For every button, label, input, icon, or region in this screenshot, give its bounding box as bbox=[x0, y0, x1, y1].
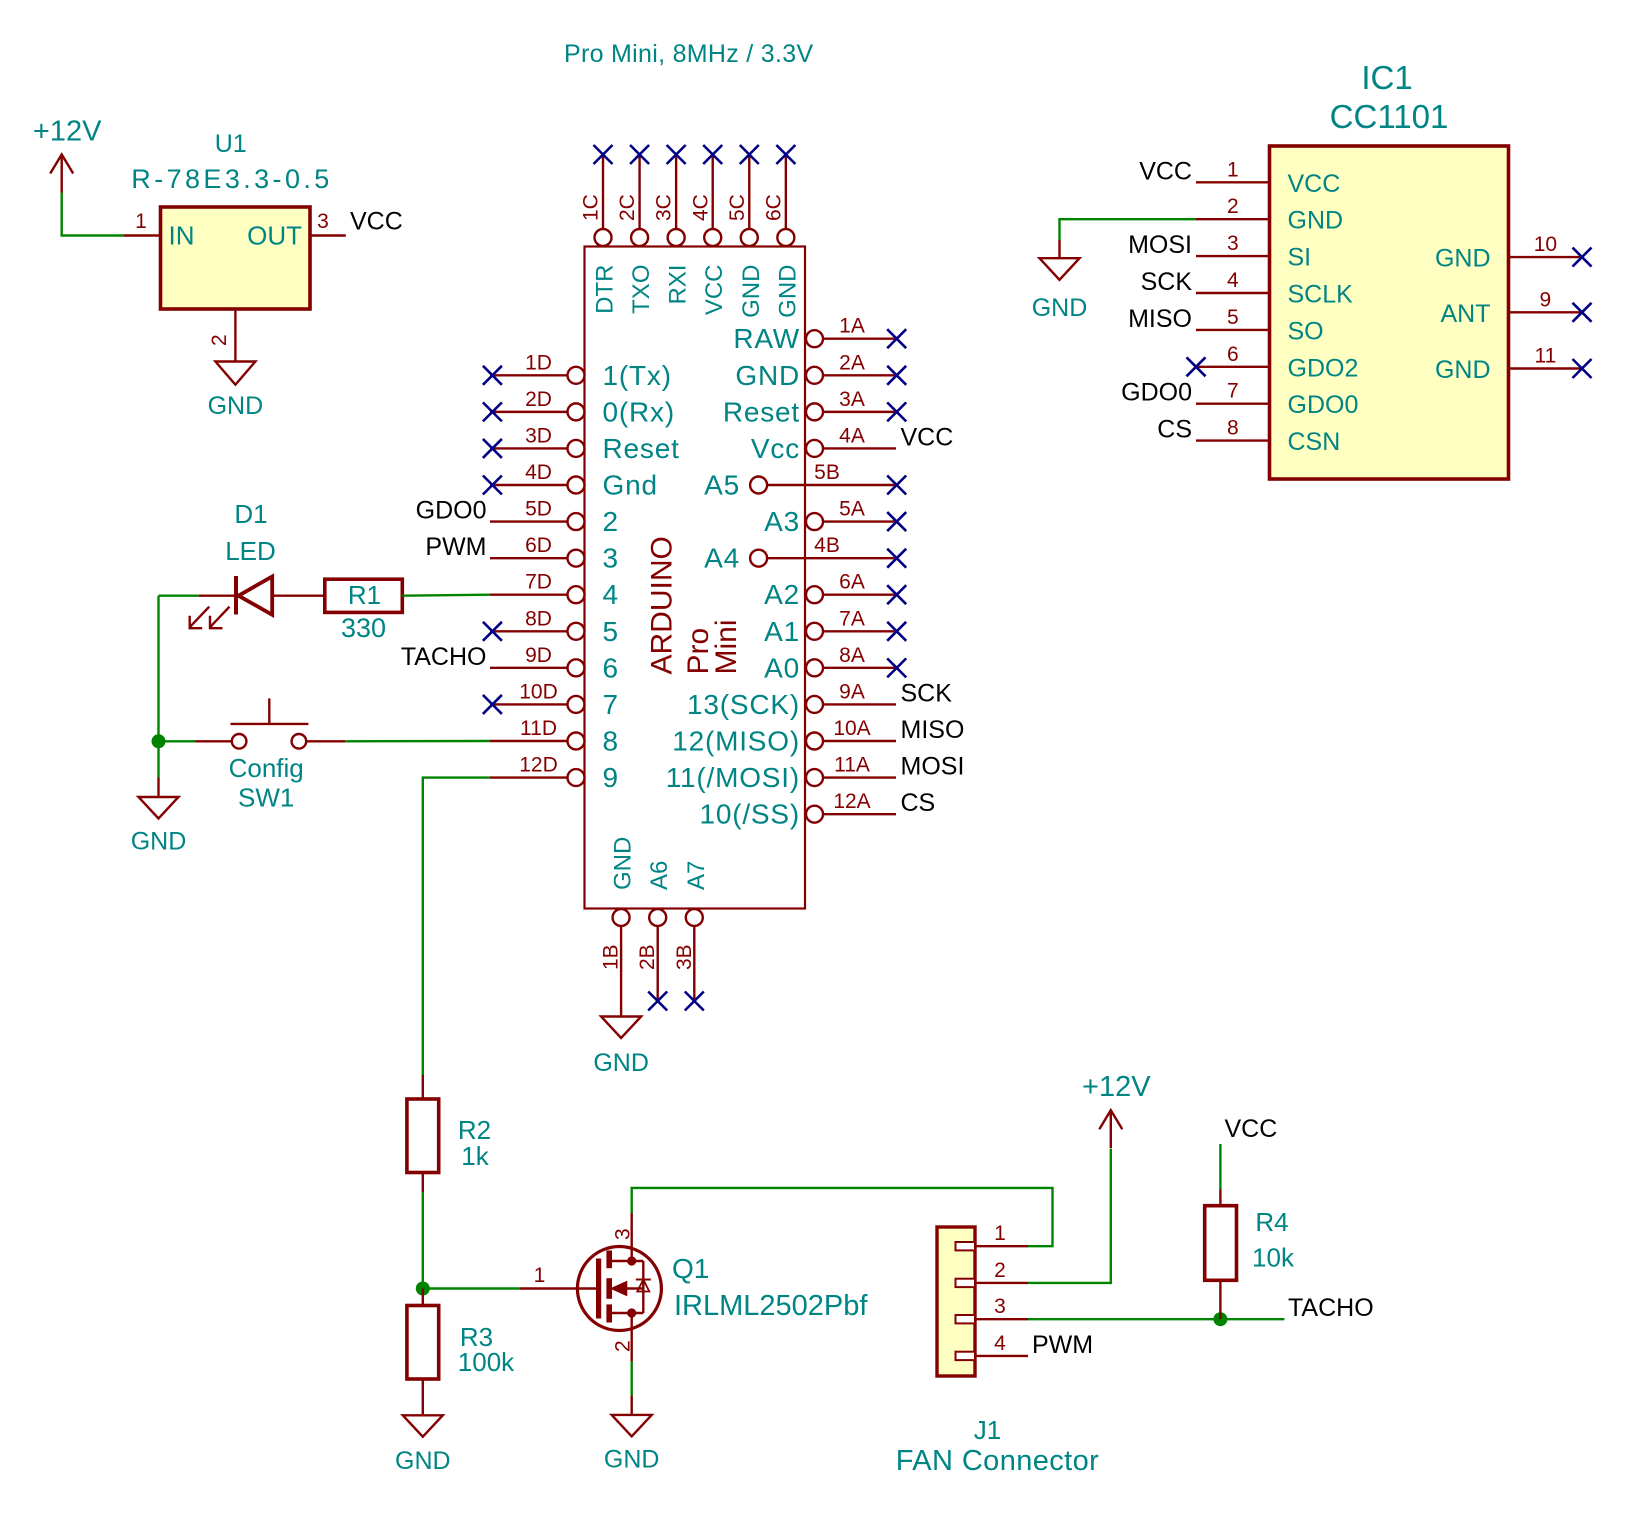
svg-text:1C: 1C bbox=[580, 194, 603, 221]
arduino pin 1B GND bbox=[613, 909, 630, 926]
ground symbol below R3 bbox=[403, 1415, 443, 1436]
no-connect IC1 pin 6 GDO2 bbox=[1187, 357, 1206, 376]
no-connect IC1 pin 9 bbox=[1573, 303, 1592, 322]
svg-text:SCK: SCK bbox=[1141, 268, 1193, 296]
svg-text:PWM: PWM bbox=[1032, 1331, 1093, 1359]
svg-text:1B: 1B bbox=[600, 944, 623, 970]
svg-text:2D: 2D bbox=[525, 388, 552, 411]
arduino pin 10A 12(MISO) bbox=[823, 740, 896, 742]
svg-text:MOSI: MOSI bbox=[1128, 231, 1192, 259]
wire arduino pin 12D to R2 bbox=[423, 778, 490, 1075]
svg-text:PWM: PWM bbox=[425, 533, 486, 561]
svg-text:A6: A6 bbox=[646, 861, 673, 890]
svg-text:9D: 9D bbox=[525, 644, 552, 667]
arduino pin 6D 3 bbox=[490, 557, 568, 559]
svg-text:3D: 3D bbox=[525, 424, 552, 447]
svg-text:2: 2 bbox=[612, 1340, 635, 1352]
svg-text:6: 6 bbox=[603, 652, 619, 683]
svg-text:13(SCK): 13(SCK) bbox=[687, 689, 800, 720]
no-connect pin 5C bbox=[740, 145, 759, 164]
svg-text:A7: A7 bbox=[683, 861, 710, 890]
wire Q1 source to ground bbox=[631, 1362, 633, 1396]
svg-text:CSN: CSN bbox=[1288, 428, 1341, 456]
svg-text:2: 2 bbox=[1227, 195, 1239, 218]
svg-text:GND: GND bbox=[610, 837, 637, 890]
J1 pin 1 bbox=[956, 1242, 976, 1250]
no-connect pin 8D bbox=[483, 622, 502, 641]
arduino pin 6C GND bbox=[785, 156, 787, 229]
arduino pin 11A 11(/MOSI) bbox=[823, 776, 896, 778]
wire VCC to R4 bbox=[1219, 1144, 1221, 1190]
svg-text:A2: A2 bbox=[764, 579, 800, 610]
svg-text:J1: J1 bbox=[974, 1415, 1001, 1445]
arduino pin 2D 0(Rx) bbox=[490, 411, 568, 413]
IC1 pin 1 VCC bbox=[1196, 181, 1270, 183]
svg-text:OUT: OUT bbox=[247, 221, 302, 251]
svg-text:SW1: SW1 bbox=[238, 783, 294, 813]
U1 pin 3 OUT bbox=[310, 234, 346, 236]
svg-text:10: 10 bbox=[1534, 233, 1557, 256]
D1 light arrow 2 bbox=[210, 607, 230, 628]
svg-text:GND: GND bbox=[395, 1447, 451, 1475]
svg-text:5C: 5C bbox=[726, 194, 749, 221]
svg-text:GND: GND bbox=[1435, 356, 1491, 384]
svg-text:3: 3 bbox=[1227, 232, 1239, 255]
svg-text:A3: A3 bbox=[764, 506, 800, 537]
svg-text:1(Tx): 1(Tx) bbox=[603, 360, 672, 391]
svg-text:GDO0: GDO0 bbox=[416, 497, 487, 525]
IC1 pin 8 CSN bbox=[1196, 439, 1270, 441]
wire junction to SW1 bbox=[159, 740, 196, 742]
arduino pin 8D 5 bbox=[490, 630, 568, 632]
svg-text:1D: 1D bbox=[525, 351, 552, 374]
arduino pin 11D 8 bbox=[490, 740, 568, 742]
svg-text:GND: GND bbox=[735, 360, 800, 391]
svg-text:R-78E3.3-0.5: R-78E3.3-0.5 bbox=[131, 164, 332, 194]
svg-text:A1: A1 bbox=[764, 616, 800, 647]
svg-text:6: 6 bbox=[1227, 343, 1239, 366]
svg-text:11A: 11A bbox=[834, 754, 870, 777]
J1 pin 3 bbox=[956, 1315, 976, 1323]
wire junction to Q1 gate bbox=[423, 1287, 520, 1289]
svg-text:8: 8 bbox=[1227, 417, 1239, 440]
svg-text:3: 3 bbox=[603, 543, 619, 574]
svg-text:8D: 8D bbox=[525, 607, 552, 630]
svg-text:GDO0: GDO0 bbox=[1121, 379, 1192, 407]
svg-text:3C: 3C bbox=[653, 194, 676, 221]
svg-text:10k: 10k bbox=[1252, 1243, 1295, 1273]
arduino pin 5C GND bbox=[748, 156, 750, 229]
IC1 pin 6 GDO2 bbox=[1196, 366, 1270, 368]
svg-text:1: 1 bbox=[1227, 158, 1239, 181]
arduino pin 1A RAW bbox=[823, 338, 896, 340]
svg-text:VCC: VCC bbox=[1139, 157, 1192, 185]
svg-text:6D: 6D bbox=[525, 534, 552, 557]
svg-text:VCC: VCC bbox=[701, 265, 728, 316]
svg-text:A0: A0 bbox=[764, 652, 800, 683]
IC1 pin 2 GND bbox=[1196, 218, 1270, 220]
no-connect pin 5A bbox=[887, 512, 906, 531]
no-connect pin 1A bbox=[887, 329, 906, 348]
svg-text:2: 2 bbox=[603, 506, 619, 537]
no-connect pin 6A bbox=[887, 585, 906, 604]
wire LED anode to junction bbox=[159, 595, 199, 597]
IC1 pin 5 SO bbox=[1196, 329, 1270, 331]
svg-text:ANT: ANT bbox=[1441, 300, 1491, 328]
ground symbol below SW1 junction bbox=[157, 778, 159, 798]
svg-text:2: 2 bbox=[208, 334, 231, 346]
wire J1 pin 2 to +12V bbox=[1028, 1149, 1111, 1283]
arduino pin 4A Vcc bbox=[823, 447, 896, 449]
svg-text:11D: 11D bbox=[520, 717, 557, 740]
ground symbol below U1 bbox=[215, 362, 255, 385]
arduino pin 12A 10(/SS) bbox=[823, 813, 896, 815]
no-connect pin 2B bbox=[648, 992, 667, 1011]
J1 pin 2 bbox=[956, 1279, 976, 1287]
wire R2 to junction bbox=[422, 1192, 424, 1288]
IC1 pin 4 SCLK bbox=[1196, 292, 1270, 294]
svg-text:SCK: SCK bbox=[901, 679, 953, 707]
svg-text:Mini: Mini bbox=[710, 619, 743, 674]
arduino pin 5A A3 bbox=[823, 520, 896, 522]
svg-text:MISO: MISO bbox=[1128, 305, 1192, 333]
svg-text:RAW: RAW bbox=[733, 323, 800, 354]
U1 pin 1 IN bbox=[123, 234, 160, 236]
svg-text:A4: A4 bbox=[704, 543, 740, 574]
svg-text:Q1: Q1 bbox=[672, 1253, 709, 1284]
wire R1 to arduino pin 7D bbox=[402, 594, 490, 597]
junction TACHO / R4 bbox=[1213, 1312, 1227, 1326]
svg-text:MOSI: MOSI bbox=[901, 753, 965, 781]
arduino pin 9D 6 bbox=[490, 667, 568, 669]
svg-text:3B: 3B bbox=[673, 944, 696, 970]
arduino pin 1C DTR bbox=[602, 156, 604, 229]
svg-text:R1: R1 bbox=[348, 580, 381, 610]
svg-text:5A: 5A bbox=[839, 498, 865, 521]
connector J1 body bbox=[937, 1227, 975, 1376]
resistor R4 body bbox=[1219, 1190, 1221, 1206]
svg-text:1: 1 bbox=[534, 1264, 546, 1287]
no-connect pin 2C bbox=[630, 145, 649, 164]
svg-text:A5: A5 bbox=[704, 470, 740, 501]
svg-text:GND: GND bbox=[131, 828, 187, 856]
svg-text:CS: CS bbox=[1157, 416, 1192, 444]
wire IC1 GND pin to ground bbox=[1060, 219, 1197, 240]
svg-text:GDO2: GDO2 bbox=[1288, 354, 1359, 382]
svg-text:+12V: +12V bbox=[33, 116, 102, 148]
svg-text:GND: GND bbox=[774, 265, 801, 318]
wire Q1 drain to J1 pin 1 bbox=[632, 1188, 1053, 1246]
svg-text:VCC: VCC bbox=[1288, 170, 1341, 198]
svg-text:2: 2 bbox=[994, 1259, 1006, 1282]
arduino pin 7D 4 bbox=[490, 594, 568, 596]
svg-text:3A: 3A bbox=[839, 388, 865, 411]
svg-text:VCC: VCC bbox=[901, 423, 954, 451]
svg-text:9A: 9A bbox=[839, 680, 865, 703]
no-connect pin 3C bbox=[667, 145, 686, 164]
no-connect pin 1C bbox=[594, 145, 613, 164]
svg-text:4B: 4B bbox=[814, 534, 840, 557]
wire J1 pin 3 TACHO net bbox=[1028, 1318, 1284, 1320]
arduino pin 7A A1 bbox=[823, 630, 896, 632]
junction LED / SW1 / GND bbox=[152, 734, 166, 748]
wire LED net vertical bbox=[157, 596, 159, 742]
svg-text:Reset: Reset bbox=[603, 433, 680, 464]
svg-text:GND: GND bbox=[604, 1445, 660, 1473]
no-connect pin 8A bbox=[887, 658, 906, 677]
U1 pin 2 GND bbox=[234, 309, 236, 362]
svg-text:IRLML2502Pbf: IRLML2502Pbf bbox=[674, 1290, 868, 1322]
svg-text:10D: 10D bbox=[519, 680, 558, 703]
svg-text:4: 4 bbox=[603, 579, 619, 610]
svg-text:CC1101: CC1101 bbox=[1330, 98, 1449, 135]
svg-text:5D: 5D bbox=[525, 498, 552, 521]
svg-text:5: 5 bbox=[603, 616, 619, 647]
svg-text:RXI: RXI bbox=[665, 265, 692, 305]
svg-text:7: 7 bbox=[1227, 380, 1239, 403]
resistor R1 body bbox=[325, 579, 403, 612]
arduino pin 3D Reset bbox=[490, 447, 568, 449]
arduino pin 3A Reset bbox=[823, 411, 896, 413]
svg-text:LED: LED bbox=[225, 536, 276, 566]
resistor R2 body bbox=[422, 1075, 424, 1099]
arduino pin 10D 7 bbox=[490, 703, 568, 705]
svg-text:7: 7 bbox=[603, 689, 619, 720]
svg-text:1: 1 bbox=[994, 1222, 1006, 1245]
svg-text:7A: 7A bbox=[839, 607, 865, 630]
svg-text:GDO0: GDO0 bbox=[1288, 391, 1359, 419]
IC1 pin 3 SI bbox=[1196, 255, 1270, 257]
svg-text:6A: 6A bbox=[839, 571, 865, 594]
arduino pin 2B A6 bbox=[649, 909, 666, 926]
svg-text:4: 4 bbox=[1227, 269, 1239, 292]
svg-text:10(/SS): 10(/SS) bbox=[699, 799, 800, 830]
svg-text:100k: 100k bbox=[458, 1347, 515, 1377]
resistor R3 body bbox=[422, 1289, 424, 1306]
svg-text:330: 330 bbox=[341, 613, 386, 643]
no-connect pin 3A bbox=[887, 402, 906, 421]
transistor Q1 IRLML2502 bbox=[577, 1247, 661, 1331]
regulator U1 body bbox=[161, 207, 311, 309]
no-connect pin 2A bbox=[887, 366, 906, 385]
svg-text:TACHO: TACHO bbox=[1288, 1294, 1374, 1322]
svg-text:1k: 1k bbox=[461, 1141, 489, 1171]
arduino pin 2C TXO bbox=[638, 156, 640, 229]
svg-text:8A: 8A bbox=[839, 644, 865, 667]
svg-text:VCC: VCC bbox=[350, 208, 403, 236]
D1 light arrow 1 bbox=[190, 607, 210, 628]
svg-text:Vcc: Vcc bbox=[751, 433, 800, 464]
svg-text:4D: 4D bbox=[525, 461, 552, 484]
no-connect pin 4D bbox=[483, 476, 502, 495]
ground symbol below arduino pin 1B bbox=[601, 1017, 641, 1039]
svg-text:DTR: DTR bbox=[592, 265, 619, 314]
no-connect pin 4C bbox=[703, 145, 722, 164]
wire SW1 to arduino pin 11D bbox=[345, 740, 490, 743]
svg-text:Gnd: Gnd bbox=[603, 470, 658, 501]
svg-text:4C: 4C bbox=[689, 194, 712, 221]
arduino pin 12D 9 bbox=[490, 776, 568, 778]
no-connect IC1 pin 10 bbox=[1573, 248, 1592, 267]
svg-text:GND: GND bbox=[1288, 207, 1344, 235]
no-connect pin 10D bbox=[483, 695, 502, 714]
svg-text:Reset: Reset bbox=[723, 396, 800, 427]
arduino pin 5D 2 bbox=[490, 520, 568, 522]
no-connect pin 2D bbox=[483, 402, 502, 421]
svg-text:GND: GND bbox=[738, 265, 765, 318]
arduino module A1 body bbox=[585, 247, 806, 909]
svg-text:1: 1 bbox=[135, 210, 147, 233]
svg-text:U1: U1 bbox=[215, 130, 247, 158]
svg-text:11: 11 bbox=[1534, 345, 1556, 368]
no-connect pin 1D bbox=[483, 366, 502, 385]
svg-text:7D: 7D bbox=[525, 571, 552, 594]
svg-text:3: 3 bbox=[317, 210, 329, 233]
svg-text:11(/MOSI): 11(/MOSI) bbox=[666, 762, 800, 793]
power +12V top-left bbox=[61, 155, 63, 193]
no-connect pin 4B bbox=[887, 549, 906, 568]
svg-text:ARDUINO: ARDUINO bbox=[645, 536, 678, 674]
arduino pin 6A A2 bbox=[823, 594, 896, 596]
arduino pin 4D Gnd bbox=[490, 484, 568, 486]
IC1 pin 10 GND bbox=[1509, 256, 1583, 258]
svg-text:3: 3 bbox=[612, 1228, 635, 1240]
svg-text:3: 3 bbox=[994, 1295, 1006, 1318]
svg-text:2A: 2A bbox=[839, 351, 865, 374]
svg-text:8: 8 bbox=[603, 726, 619, 757]
svg-text:GND: GND bbox=[593, 1049, 649, 1077]
svg-text:5: 5 bbox=[1227, 306, 1239, 329]
svg-text:12A: 12A bbox=[833, 790, 870, 813]
svg-text:2B: 2B bbox=[636, 944, 659, 970]
svg-text:1A: 1A bbox=[839, 315, 865, 338]
svg-text:Config: Config bbox=[229, 753, 304, 783]
no-connect IC1 pin 11 bbox=[1573, 359, 1592, 378]
svg-text:TACHO: TACHO bbox=[401, 643, 487, 671]
J1 pin 4 bbox=[956, 1352, 976, 1360]
radio IC1 CC1101 body bbox=[1270, 146, 1509, 479]
svg-text:+12V: +12V bbox=[1082, 1071, 1151, 1103]
svg-text:GND: GND bbox=[1435, 245, 1491, 273]
svg-text:12D: 12D bbox=[519, 754, 558, 777]
svg-text:9: 9 bbox=[603, 762, 619, 793]
wire junction down to ground bbox=[157, 741, 159, 777]
svg-text:0(Rx): 0(Rx) bbox=[603, 396, 675, 427]
arduino pin 4B A4 bbox=[767, 557, 896, 559]
svg-text:GND: GND bbox=[208, 392, 264, 420]
svg-text:4A: 4A bbox=[839, 424, 865, 447]
svg-text:IC1: IC1 bbox=[1361, 59, 1412, 96]
svg-text:TXO: TXO bbox=[628, 265, 655, 314]
arduino pin 3B A7 bbox=[686, 909, 703, 926]
arduino pin 3C RXI bbox=[675, 156, 677, 229]
svg-text:5B: 5B bbox=[814, 461, 840, 484]
svg-text:GND: GND bbox=[1032, 294, 1088, 322]
IC1 pin 9 ANT bbox=[1509, 311, 1583, 313]
IC1 pin 11 GND bbox=[1509, 367, 1583, 369]
ground symbol at IC1 bbox=[1058, 240, 1060, 258]
svg-text:CS: CS bbox=[901, 789, 936, 817]
svg-text:MISO: MISO bbox=[901, 716, 965, 744]
svg-text:12(MISO): 12(MISO) bbox=[672, 726, 800, 757]
wire +12V to U1 IN bbox=[62, 193, 124, 236]
arduino pin 8A A0 bbox=[823, 667, 896, 669]
no-connect pin 6C bbox=[776, 145, 795, 164]
arduino pin 2A GND bbox=[823, 374, 896, 376]
svg-text:R4: R4 bbox=[1255, 1207, 1288, 1237]
svg-text:D1: D1 bbox=[234, 499, 267, 529]
switch SW1 push button bbox=[196, 740, 232, 742]
svg-text:2C: 2C bbox=[616, 194, 639, 221]
arduino pin 5B A5 bbox=[767, 484, 896, 486]
diode D1 LED bbox=[234, 576, 238, 615]
svg-text:6C: 6C bbox=[762, 194, 785, 221]
svg-text:SI: SI bbox=[1288, 244, 1312, 272]
svg-text:9: 9 bbox=[1540, 288, 1552, 311]
svg-text:VCC: VCC bbox=[1225, 1115, 1278, 1143]
power +12V at fan connector bbox=[1110, 1110, 1112, 1148]
no-connect pin 5B bbox=[887, 476, 906, 495]
junction R2 / R3 / Q1 gate bbox=[416, 1282, 430, 1296]
no-connect pin 3D bbox=[483, 439, 502, 458]
svg-text:SO: SO bbox=[1288, 317, 1324, 345]
ground symbol below Q1 bbox=[631, 1395, 633, 1415]
IC1 pin 7 GDO0 bbox=[1196, 403, 1270, 405]
svg-text:4: 4 bbox=[994, 1332, 1006, 1355]
svg-text:SCLK: SCLK bbox=[1288, 281, 1354, 309]
no-connect pin 7A bbox=[887, 622, 906, 641]
svg-text:10A: 10A bbox=[833, 717, 870, 740]
svg-text:FAN Connector: FAN Connector bbox=[896, 1445, 1099, 1477]
arduino pin 9A 13(SCK) bbox=[823, 703, 896, 705]
no-connect pin 3B bbox=[685, 992, 704, 1011]
arduino pin 4C VCC bbox=[712, 156, 714, 229]
svg-text:Pro Mini, 8MHz / 3.3V: Pro Mini, 8MHz / 3.3V bbox=[564, 40, 813, 68]
svg-text:IN: IN bbox=[169, 221, 195, 251]
arduino pin 1D 1(Tx) bbox=[490, 374, 568, 376]
